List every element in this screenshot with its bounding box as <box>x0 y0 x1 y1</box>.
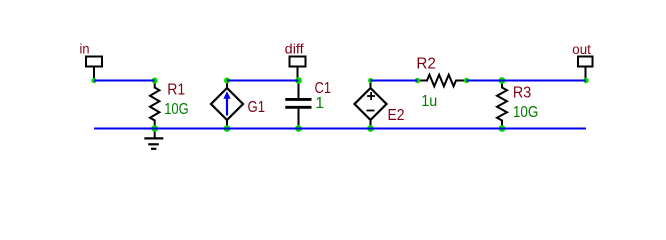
source E2 <box>355 81 387 129</box>
node R1 bottom / ground junction <box>151 125 158 132</box>
node G1 top (junction dot) <box>224 78 230 84</box>
svg-text:1u: 1u <box>421 93 437 110</box>
resistor R1 <box>150 81 159 129</box>
svg-text:1: 1 <box>315 95 324 112</box>
wire top: E2 to R2 left <box>371 80 418 82</box>
svg-text:R2: R2 <box>416 56 436 73</box>
resistor R3 <box>497 81 507 129</box>
node C1 bottom (junction dot) <box>295 125 302 132</box>
wire top: G1 top to node diff <box>227 80 299 82</box>
label diff <box>285 41 304 57</box>
value 10G of R3 <box>513 104 539 121</box>
svg-text:R1: R1 <box>167 82 185 99</box>
node R3 bottom (junction dot) <box>499 125 506 132</box>
node E2 bottom (junction dot) <box>367 125 374 132</box>
node R3 top (junction dot) <box>499 77 506 84</box>
value 10G of R1 <box>164 101 189 118</box>
node R2 left (terminal dot) <box>415 78 420 83</box>
port out <box>578 57 593 81</box>
node R1 top (junction dot) <box>152 78 158 84</box>
svg-text:R3: R3 <box>513 85 531 102</box>
label in <box>80 41 90 57</box>
label G1 <box>248 99 266 116</box>
wire top: R2 right to node out <box>467 80 587 82</box>
node diff (junction dot) <box>295 77 302 84</box>
value 1u of R2 <box>421 93 437 110</box>
node in (terminal dot) <box>91 78 96 83</box>
label R1 <box>167 82 185 99</box>
wire top: node in to R1 top <box>94 80 155 82</box>
resistor R2 <box>418 75 467 87</box>
svg-text:diff: diff <box>285 41 304 57</box>
port diff <box>290 57 306 81</box>
svg-text:E2: E2 <box>388 107 405 124</box>
svg-text:in: in <box>80 41 90 57</box>
label C1 <box>315 80 332 97</box>
node G1 bottom (junction dot) <box>224 125 231 132</box>
port in <box>86 57 102 81</box>
value 1 of C1 <box>315 95 324 112</box>
label out <box>572 41 591 57</box>
svg-text:G1: G1 <box>248 99 266 116</box>
node R2 right (terminal dot) <box>464 78 469 83</box>
label R2 <box>416 56 436 73</box>
node out (terminal dot) <box>583 78 588 83</box>
node E2 top (terminal dot) <box>368 78 373 83</box>
svg-text:10G: 10G <box>164 101 189 118</box>
svg-text:10G: 10G <box>513 104 539 121</box>
svg-text:out: out <box>572 41 591 57</box>
current source G1 <box>211 81 243 129</box>
label E2 <box>388 107 405 124</box>
capacitor C1 <box>285 81 311 129</box>
label R3 <box>513 85 531 102</box>
wire bottom rail <box>94 128 586 130</box>
ground <box>144 129 163 149</box>
